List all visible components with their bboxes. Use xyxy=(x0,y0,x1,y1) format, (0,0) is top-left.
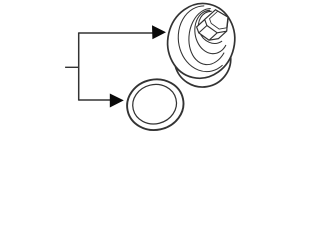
wire: bracket vertical xyxy=(78,32,80,100)
cap skirt bottom outline xyxy=(175,57,230,87)
node: bottom arrowhead xyxy=(110,94,124,108)
cap outer rim ellipse xyxy=(160,0,242,85)
cap step arc 5 xyxy=(198,11,222,43)
hex boss facet edge 2 xyxy=(209,33,217,40)
hex boss silhouette xyxy=(197,10,229,40)
hex boss chamfer xyxy=(210,11,228,29)
node: top arrowhead xyxy=(152,25,166,39)
cap step arc 4 xyxy=(195,10,226,53)
cap step arc 3 xyxy=(189,8,224,64)
wire: top leader line xyxy=(79,32,153,34)
O-ring inner xyxy=(129,80,181,129)
hex boss facet edge 1 xyxy=(199,26,207,33)
O-ring outer xyxy=(122,74,188,135)
cap step arc 2 xyxy=(178,6,222,72)
wire: bottom leader line xyxy=(79,99,111,101)
wire: leader tick xyxy=(65,66,79,68)
hex boss top face xyxy=(205,10,229,33)
